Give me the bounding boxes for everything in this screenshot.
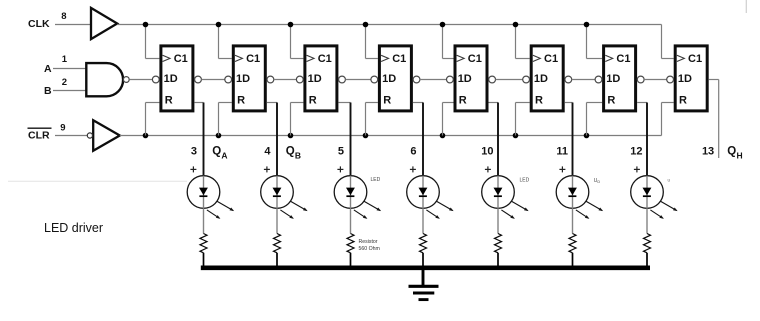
svg-text:R: R xyxy=(535,95,543,107)
svg-text:H: H xyxy=(737,150,743,160)
svg-text:Q: Q xyxy=(727,146,736,158)
svg-text:10: 10 xyxy=(481,145,493,157)
svg-text:C1: C1 xyxy=(392,53,406,65)
svg-text:C1: C1 xyxy=(318,53,332,65)
svg-text:R: R xyxy=(607,95,615,107)
svg-text:C1: C1 xyxy=(544,53,558,65)
svg-text:C1: C1 xyxy=(246,53,260,65)
svg-text:8: 8 xyxy=(61,11,66,22)
svg-text:1D: 1D xyxy=(534,73,548,85)
svg-text:Resistor: Resistor xyxy=(359,239,378,245)
svg-text:1D: 1D xyxy=(606,73,620,85)
svg-text:C1: C1 xyxy=(616,53,630,65)
svg-text:R: R xyxy=(383,95,391,107)
svg-text:B: B xyxy=(295,150,301,160)
svg-text:B: B xyxy=(44,85,52,97)
svg-text:C1: C1 xyxy=(688,53,702,65)
svg-text:1D: 1D xyxy=(308,73,322,85)
svg-text:R: R xyxy=(237,95,245,107)
svg-text:2: 2 xyxy=(62,77,67,88)
svg-text:1D: 1D xyxy=(382,73,396,85)
svg-text:4: 4 xyxy=(264,145,271,157)
svg-text:9: 9 xyxy=(60,122,65,133)
svg-text:C1: C1 xyxy=(174,53,188,65)
svg-text:CLR: CLR xyxy=(28,130,50,142)
svg-text:Q: Q xyxy=(286,146,295,158)
svg-text:Q: Q xyxy=(212,146,221,158)
svg-text:A: A xyxy=(221,150,227,160)
svg-text:1D: 1D xyxy=(678,73,692,85)
svg-text:13: 13 xyxy=(702,145,714,157)
svg-text:12: 12 xyxy=(630,145,642,157)
svg-text:LED driver: LED driver xyxy=(44,221,103,235)
svg-text:R: R xyxy=(679,95,687,107)
svg-text:6: 6 xyxy=(410,145,416,157)
svg-text:R: R xyxy=(165,95,173,107)
svg-text:3: 3 xyxy=(191,145,197,157)
svg-text:11: 11 xyxy=(556,145,568,157)
svg-text:R: R xyxy=(459,95,467,107)
svg-text:1D: 1D xyxy=(164,73,178,85)
svg-text:C1: C1 xyxy=(468,53,482,65)
svg-text:5: 5 xyxy=(338,145,344,157)
svg-text:LED: LED xyxy=(371,177,381,183)
svg-text:LED: LED xyxy=(520,178,530,184)
svg-text:R: R xyxy=(309,95,317,107)
svg-text:560 Ohm: 560 Ohm xyxy=(359,246,380,252)
svg-text:1: 1 xyxy=(62,54,68,65)
svg-text:1D: 1D xyxy=(236,73,250,85)
svg-text:1D: 1D xyxy=(458,73,472,85)
svg-text:CLK: CLK xyxy=(28,18,50,30)
svg-text:A: A xyxy=(44,63,52,75)
